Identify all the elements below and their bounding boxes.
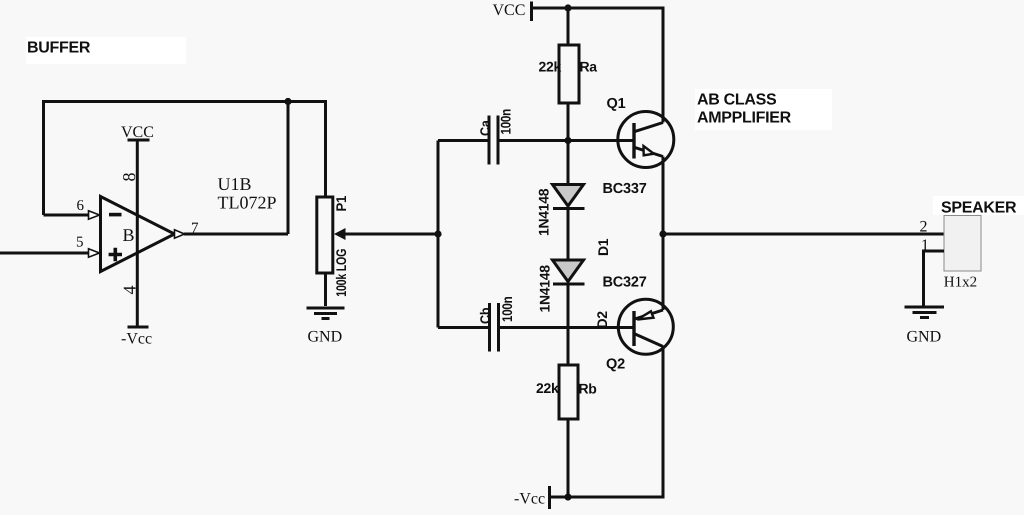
svg-text:22k: 22k xyxy=(536,380,559,396)
svg-text:1: 1 xyxy=(921,237,929,254)
svg-text:Rb: Rb xyxy=(579,381,597,397)
svg-text:D1: D1 xyxy=(595,238,611,256)
svg-text:BUFFER: BUFFER xyxy=(27,40,91,57)
svg-text:Cb: Cb xyxy=(477,308,493,324)
svg-text:GND: GND xyxy=(907,329,942,346)
svg-text:100n: 100n xyxy=(499,297,515,322)
svg-text:8: 8 xyxy=(119,173,139,182)
svg-text:1N4148: 1N4148 xyxy=(537,265,553,313)
svg-text:GND: GND xyxy=(308,329,343,346)
svg-text:P1: P1 xyxy=(333,195,349,211)
svg-text:22k: 22k xyxy=(539,58,562,74)
svg-text:Q1: Q1 xyxy=(607,96,626,112)
svg-text:U1B: U1B xyxy=(218,174,252,194)
svg-text:BC327: BC327 xyxy=(603,275,647,291)
svg-text:2: 2 xyxy=(920,219,928,236)
svg-text:BC337: BC337 xyxy=(603,181,647,197)
svg-text:100k LOG: 100k LOG xyxy=(333,249,349,297)
svg-text:AB CLASS: AB CLASS xyxy=(697,92,777,109)
svg-text:VCC: VCC xyxy=(493,2,526,19)
svg-text:7: 7 xyxy=(191,221,199,237)
svg-text:AMPPLIFIER: AMPPLIFIER xyxy=(697,110,792,127)
svg-text:Ca: Ca xyxy=(477,120,493,136)
svg-text:-Vcc: -Vcc xyxy=(514,491,545,508)
svg-text:Q2: Q2 xyxy=(606,357,625,373)
svg-text:1N4148: 1N4148 xyxy=(536,188,552,236)
svg-text:SPEAKER: SPEAKER xyxy=(941,200,1017,217)
svg-text:-Vcc: -Vcc xyxy=(121,331,152,348)
svg-text:D2: D2 xyxy=(594,311,610,329)
svg-text:6: 6 xyxy=(77,198,85,214)
svg-text:5: 5 xyxy=(76,235,84,251)
svg-text:TL072P: TL072P xyxy=(218,193,277,213)
svg-text:B: B xyxy=(123,225,135,245)
svg-text:VCC: VCC xyxy=(121,124,154,141)
svg-text:Ra: Ra xyxy=(580,59,598,75)
svg-text:H1x2: H1x2 xyxy=(944,275,977,291)
svg-text:4: 4 xyxy=(120,286,140,295)
svg-text:100n: 100n xyxy=(498,109,514,134)
